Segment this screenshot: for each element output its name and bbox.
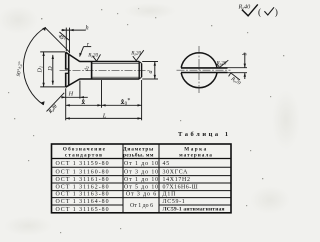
svg-text:ЛС59-1 антимагнитная: ЛС59-1 антимагнитная	[163, 207, 225, 213]
r leader shelf	[84, 46, 92, 48]
svg-text:Обозначение: Обозначение	[63, 146, 106, 153]
head cone lower slant	[66, 79, 80, 87]
Rz20 check on shank	[93, 54, 101, 61]
r leader arrow	[80, 47, 84, 57]
svg-text:): )	[275, 7, 278, 18]
d extension line top at tip	[142, 61, 158, 63]
svg-text:07Х16Н6-Ш: 07Х16Н6-Ш	[163, 185, 199, 191]
table grid	[52, 144, 232, 213]
svg-text:L: L	[102, 112, 107, 119]
table row line 6 col3	[159, 204, 231, 206]
Rz20 check at tip	[133, 50, 144, 60]
svg-text:ЛС59-1: ЛС59-1	[163, 199, 186, 205]
Rz20 check end view slot bottom	[229, 73, 240, 80]
svg-text:Rz20: Rz20	[229, 76, 242, 87]
svg-text:14Х17Н2: 14Х17Н2	[163, 177, 191, 183]
H extension line (head face, down)	[65, 88, 67, 120]
svg-text:Rz20: Rz20	[87, 53, 98, 59]
shank top line	[80, 61, 140, 63]
table row line 2	[52, 175, 232, 177]
svg-text:От 3 до 6: От 3 до 6	[126, 192, 157, 198]
90 deg upper extension line	[45, 28, 70, 53]
shank bottom line	[80, 78, 140, 80]
svg-text:ОСТ 1 31159-80: ОСТ 1 31159-80	[55, 161, 109, 167]
table row line 4	[52, 190, 232, 192]
table row line 1	[52, 166, 232, 168]
tip chamfer line	[138, 62, 140, 80]
svg-text:*: *	[127, 98, 130, 104]
arc arrow top	[42, 27, 46, 31]
label l	[82, 100, 85, 104]
svg-text:30ХГСА: 30ХГСА	[163, 169, 189, 175]
tip chamfer corner top	[139, 62, 141, 64]
svg-text:Rz20: Rz20	[48, 104, 59, 115]
svg-text:От 3 до 10: От 3 до 10	[124, 169, 159, 175]
b extension line bottom	[228, 72, 248, 74]
svg-text:От 5 до 10: От 5 до 10	[124, 185, 159, 191]
roughness leader on cone extension	[59, 32, 69, 40]
svg-text:Таблица 1: Таблица 1	[178, 131, 231, 138]
svg-text:Rz20: Rz20	[130, 50, 141, 56]
arc arrow bottom	[41, 101, 45, 105]
svg-text:ОСТ 1 31164-80: ОСТ 1 31164-80	[55, 199, 109, 205]
slot side lower	[65, 72, 69, 74]
extension line at tip (down)	[141, 80, 143, 120]
svg-text:ОСТ 1 31161-80: ОСТ 1 31161-80	[55, 177, 109, 183]
end view vertical centerline	[198, 46, 200, 95]
end view slot bottom line	[181, 72, 228, 74]
slot bottom line across head	[68, 55, 70, 86]
svg-text:Rz40: Rz40	[238, 4, 252, 11]
svg-text:H: H	[68, 90, 74, 97]
screw head face line (broken at slot)	[65, 52, 67, 87]
svg-text:45: 45	[163, 161, 171, 167]
table row line 6 col1	[52, 204, 124, 206]
(v) check	[264, 7, 274, 15]
svg-text:От 1 до 6: От 1 до 6	[130, 203, 153, 209]
Rz20 check end view slot top	[217, 60, 228, 67]
H dimension line	[61, 96, 88, 98]
slot side upper	[65, 68, 69, 70]
label l0*	[121, 100, 124, 104]
svg-text:От 1 до 10: От 1 до 10	[124, 161, 159, 167]
svg-text:(: (	[258, 7, 261, 18]
end view slot top line	[181, 67, 228, 69]
b extension line top	[228, 67, 248, 69]
table row line 5	[52, 197, 232, 199]
d dimension line	[154, 62, 156, 80]
svg-text:От 1 до 10: От 1 до 10	[124, 177, 159, 183]
dimension h extension lines above head	[65, 28, 67, 52]
thread minor diameter top line	[92, 62, 140, 64]
table column line 2	[158, 144, 160, 213]
svg-text:D: D	[48, 66, 54, 72]
svg-text:ОСТ 1 31165-80: ОСТ 1 31165-80	[55, 207, 109, 213]
svg-text:материала: материала	[179, 153, 213, 159]
tip end face	[141, 63, 143, 77]
d extension line bottom at tip	[142, 78, 158, 80]
svg-text:D1: D1	[38, 66, 44, 74]
D1 dimension line outer	[43, 52, 45, 87]
90 deg dimension arc	[23, 27, 45, 104]
svg-text:ОСТ 1 31163-80: ОСТ 1 31163-80	[55, 192, 109, 198]
thread start boundary line	[91, 62, 93, 80]
svg-text:d: d	[147, 70, 154, 74]
D dimension line inner	[52, 55, 54, 85]
end view horizontal centerline	[177, 69, 231, 71]
b dimension line	[244, 53, 246, 68]
90 deg lower extension line	[47, 93, 65, 112]
D outer extension line bottom	[40, 86, 65, 88]
l0 dimension line	[102, 104, 142, 106]
extension line at thread start (down)	[101, 80, 103, 108]
svg-text:ОСТ 1 31162-80: ОСТ 1 31162-80	[55, 185, 109, 191]
end view circle bottom arc	[181, 73, 217, 88]
svg-text:45°: 45°	[56, 34, 65, 43]
D outer extension line top	[40, 51, 65, 53]
svg-text:h: h	[86, 25, 89, 32]
table header bottom line	[52, 158, 232, 160]
svg-text:Д1П: Д1П	[163, 192, 177, 198]
svg-text:b: b	[243, 53, 249, 56]
table outer border	[52, 144, 232, 213]
svg-text:d2: d2	[84, 66, 90, 71]
l dimension line	[66, 104, 102, 106]
svg-text:ОСТ 1 31160-80: ОСТ 1 31160-80	[55, 169, 109, 175]
tip chamfer corner bottom	[139, 77, 141, 79]
end view circle top arc	[181, 53, 217, 68]
table column line 1	[122, 144, 124, 213]
H extension line right (cone base)	[79, 81, 81, 99]
svg-text:90°±2°: 90°±2°	[15, 61, 24, 77]
table row line 3	[52, 182, 232, 184]
thread minor diameter bottom line	[92, 76, 140, 78]
dimension h line	[61, 29, 86, 31]
head cone upper slant	[66, 52, 80, 61]
svg-text:резьбы, мм: резьбы, мм	[123, 152, 154, 159]
svg-text:Rz20: Rz20	[216, 61, 227, 67]
Rz40 title check	[242, 4, 258, 15]
svg-text:стандартов: стандартов	[65, 153, 103, 159]
wire centerline main axis	[60, 69, 148, 71]
L dimension line	[66, 117, 142, 119]
